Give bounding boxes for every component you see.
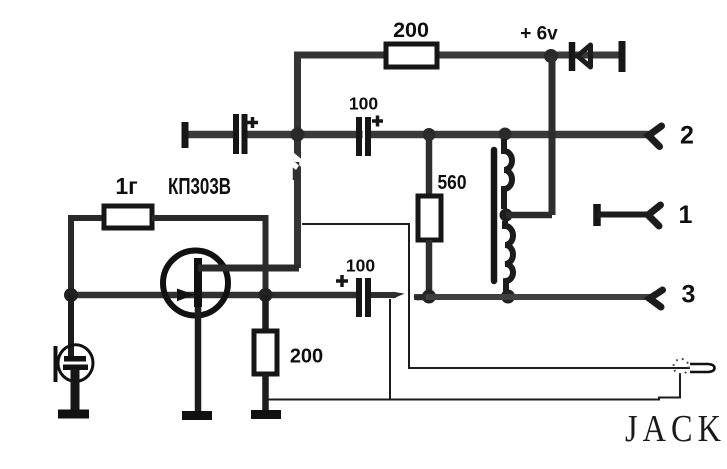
wire3 left end taper: [414, 293, 427, 300]
arrow terminal 1: [648, 205, 661, 226]
svg-text:1г: 1г: [115, 173, 137, 199]
wiper wire to +6v vertical: [506, 212, 552, 219]
arrow terminal 2: [649, 126, 662, 147]
junction node on wire2 at drain vertical: [291, 128, 305, 142]
microphone side bar: [54, 346, 58, 382]
terminal 1 bar: [593, 204, 601, 226]
plus sign C1: [247, 117, 258, 128]
capacitor C3 gap: [362, 277, 365, 318]
junction node wire3 / 560 branch: [422, 290, 436, 304]
1g branch right wire + corner down: [152, 218, 266, 295]
wire 3 horizontal (output line): [414, 294, 650, 300]
lower drain vertical after break: [293, 162, 300, 180]
1g branch left wire + corner down: [71, 218, 104, 295]
svg-text:100: 100: [346, 256, 375, 276]
wire C3 to tick: [371, 292, 396, 298]
capacitor C2 gap: [363, 116, 366, 157]
thin wire jack sleeve: from R5 ground stem: [268, 373, 680, 400]
resistor R2 200 (top): [386, 44, 437, 67]
source wire down to ground: [195, 307, 202, 412]
potentiometer coil: [504, 139, 513, 292]
microphone BM1 circle: [58, 345, 93, 382]
potentiometer bar: [491, 150, 498, 281]
node +6v junction: [544, 49, 558, 63]
svg-text:КП303В: КП303В: [168, 173, 231, 199]
diode VD1 triangle: [578, 45, 591, 67]
wire 560 branch vertical top: [426, 134, 433, 198]
ground (mic): [58, 410, 89, 419]
capacitor C2 plates: [356, 117, 362, 156]
terminal 1 wire: [597, 212, 649, 218]
drain wire from channel to vertical: [198, 265, 299, 272]
svg-text:1: 1: [679, 201, 693, 229]
microphone plate top: [64, 356, 86, 362]
junction node gate / mic: [64, 288, 78, 302]
terminal bar right of diode: [619, 41, 626, 72]
dashed circle around jack joint: [674, 359, 689, 374]
ground (R5): [251, 410, 281, 419]
microphone plate bottom: [63, 365, 88, 371]
diode VD1 cathode bar: [569, 42, 576, 71]
wire mic to ground: [71, 369, 80, 412]
thin wire jack tip: from drain vertical to plug: [302, 224, 690, 368]
transistor channel bar: [194, 258, 202, 307]
junction node source / 200 branch: [259, 288, 273, 302]
wiper junction node: [500, 209, 513, 222]
svg-text:+ 6v: + 6v: [520, 24, 558, 45]
svg-text:100: 100: [349, 94, 378, 114]
wire top rail from drain corner to resistor R2: [298, 55, 387, 268]
svg-text:3: 3: [682, 281, 696, 309]
junction node wire2 / 560 branch: [423, 128, 436, 141]
plus sign C2: [372, 116, 383, 127]
+6v vertical wire: [549, 56, 556, 215]
white slash break on drain vertical: [287, 147, 306, 171]
svg-text:560: 560: [438, 172, 467, 194]
gate/source horizontal line: [69, 292, 356, 299]
capacitor C1 gap: [239, 113, 242, 155]
arrow terminal 3: [650, 290, 663, 307]
capacitor C3 plates: [356, 278, 362, 317]
white notch under break: [287, 155, 299, 170]
ground (transistor source): [182, 411, 212, 420]
resistor R5 200 (bottom): [254, 331, 277, 374]
transistor Q1 circle: [163, 251, 228, 316]
source wire end taper: [393, 292, 405, 299]
wire 560 branch vertical bottom: [426, 240, 433, 296]
resistor R4 560: [418, 196, 441, 240]
wire mic to gate junction: [68, 295, 74, 358]
wire resistor to ground: [262, 374, 269, 411]
svg-text:JACK: JACK: [625, 408, 726, 450]
jack plug tip: [690, 364, 715, 372]
input terminal bar left: [182, 122, 189, 148]
thin wire wire3 tap down: [389, 299, 391, 400]
junction node wire2 / pot top: [499, 128, 512, 141]
wire 2 horizontal (input line): [185, 131, 649, 139]
resistor R1 1g: [104, 206, 152, 228]
svg-text:200: 200: [393, 18, 429, 42]
transistor gate arrow: [177, 289, 195, 302]
svg-text:200: 200: [290, 346, 323, 368]
capacitor C1 plates: [233, 114, 239, 154]
wire source branch to resistor: [262, 295, 269, 333]
plus sign C3: [336, 275, 348, 287]
junction node wire3 / pot bottom: [501, 290, 515, 304]
wire top rail right of R2 to diode terminal: [437, 52, 620, 59]
svg-text:2: 2: [680, 122, 694, 150]
